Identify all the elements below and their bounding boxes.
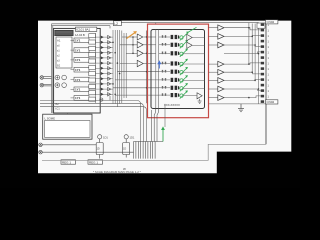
svg-text:L SOME: L SOME [45,116,56,120]
junction dots stub [132,36,134,54]
pin number marks IC601 [162,35,166,96]
power block U105 [43,114,92,139]
buffer U104b [218,69,224,75]
wire left container rails [52,24,53,113]
LED opto D603 green [180,49,188,57]
schematic page sheet [38,21,291,174]
svg-text:IC1: IC1 [56,107,61,111]
svg-text:CN02: CN02 [267,100,275,104]
svg-text:1D: 1D [97,148,100,151]
connector pins J102 with X marks [40,76,52,87]
ground mini inside IC [198,99,202,104]
port box texts [75,39,81,101]
junction dots feeder [146,36,147,88]
svg-text:CN02: CN02 [267,20,275,24]
sub block ROM [56,37,72,68]
svg-text:L2: L2 [114,22,118,26]
svg-text:1Y1: 1Y1 [75,48,81,52]
buffer array small triangles [108,35,111,96]
svg-text:XXX-XXXXX: XXX-XXXXX [164,103,180,107]
LED opto D602 green [180,40,188,48]
connector pin X with circle J103 [39,143,96,147]
pin header box top [76,27,97,32]
wire IC row outputs [183,54,204,96]
wire rows into isolator block [113,37,159,95]
wire bus inside U101 [95,33,97,103]
buffer inside IC row1 [187,34,205,40]
buffer U102c [137,60,143,66]
wire bus vertical mid [113,30,126,107]
highlight box red [148,24,209,118]
wire IC row stubs [159,37,170,95]
regulator Q102 [123,135,135,158]
wire row rungs left bank [89,37,113,94]
LED opto D605 green [180,67,188,75]
wire top feed A [52,23,259,29]
buffer U103a [218,25,224,31]
background letterbox [0,0,300,188]
svg-text:REG 1: REG 1 [89,160,98,164]
svg-text:1Y1: 1Y1 [75,58,81,62]
connector pin X with circle J104 [39,150,43,154]
wire comb header [134,141,164,143]
LED opto D608 green [180,90,188,98]
buffer U102a [137,42,143,48]
wire feeder vertical x146.5 [146,31,148,104]
svg-text:1Y1: 1Y1 [75,78,81,82]
LED opto D606 green [180,75,188,83]
svg-text:1A 04 B: 1A 04 B [75,33,85,37]
driver cell boxes column [89,34,96,102]
junction dots right bus [248,27,259,98]
svg-text:REG 1: REG 1 [62,160,71,164]
buffer U103b [218,34,224,40]
oscillator X102 circle pair [55,83,66,88]
svg-text:1Y1: 1Y1 [75,39,81,43]
port name boxes inside U101 [74,38,89,100]
regulator Q101 [96,135,108,159]
label block dark hatch [55,30,74,36]
header pin number texts [268,23,270,99]
green annotation arrow up [161,126,165,141]
sheet border frame gray [42,144,266,160]
wire bottom rail right [209,103,266,105]
svg-text:1Y1: 1Y1 [75,68,81,72]
svg-text:1D1: 1D1 [130,135,135,139]
wire lower rails left [40,100,165,142]
oscillator X101 circle pair [55,75,66,80]
wire comb bus drop ticks [134,142,156,159]
ground symbol GND [238,104,244,112]
svg-text:A1: A1 [57,39,61,43]
wire outputs to line buffers [209,28,218,98]
blue annotation arrow [157,60,161,68]
buffer U102b [137,50,143,56]
diode array D101-D112 [101,36,104,96]
test point TP1 [100,96,110,101]
connector ref box top [266,20,278,24]
wire buffer outputs to header stepped [224,28,261,98]
buffer U104a [218,61,224,67]
buffer U102d orange highlighted [137,34,143,40]
node label box P1 [257,23,265,28]
header connector CN102 [265,20,267,144]
IC U101 main block [54,28,101,113]
header pin pads CN102 [261,23,264,103]
wire bus drops from isolator [151,109,158,142]
svg-text:* SCHE DIAGRAM MAIN PAGE 1-2 *: * SCHE DIAGRAM MAIN PAGE 1-2 * [93,170,142,174]
net label box N1 [61,160,76,165]
photo-isolator IC601 outline [151,30,205,109]
wire port box left stubs [71,40,75,98]
svg-text:1Y1: 1Y1 [75,96,81,100]
buffer U104e [218,95,224,101]
IC601 row glyph texts [171,35,180,97]
net label box N2 [88,160,103,165]
wire bus vertical right [249,23,259,104]
LED opto D607 green [180,83,188,91]
buffer inside IC row8 [197,93,202,99]
junction stub node [132,37,134,53]
svg-text:1Y1: 1Y1 [75,88,81,92]
buffer U103c [218,42,224,48]
wire B1 to U105 [67,113,69,114]
svg-text:1D: 1D [123,148,126,151]
wire main bottom rail [42,151,133,153]
svg-text:1D1: 1D1 [103,135,108,139]
LED opto D604 green [180,59,188,67]
node label box L2 [114,21,122,26]
buffer inside IC row2 [187,42,205,48]
wire bus vertical inside IC601 [156,23,159,109]
svg-text:IC101 8A1: IC101 8A1 [76,28,91,32]
buffer U104d [218,86,224,92]
text U101 bottom label [56,102,61,111]
LED opto D601 green [180,27,197,40]
svg-text:B2: B2 [56,102,60,106]
buffer U104c [218,78,224,84]
orange annotation arrow [127,31,137,38]
connector ref box bottom [266,100,278,104]
svg-text:B2: B2 [57,64,61,68]
junction dots mid bus [112,42,120,96]
